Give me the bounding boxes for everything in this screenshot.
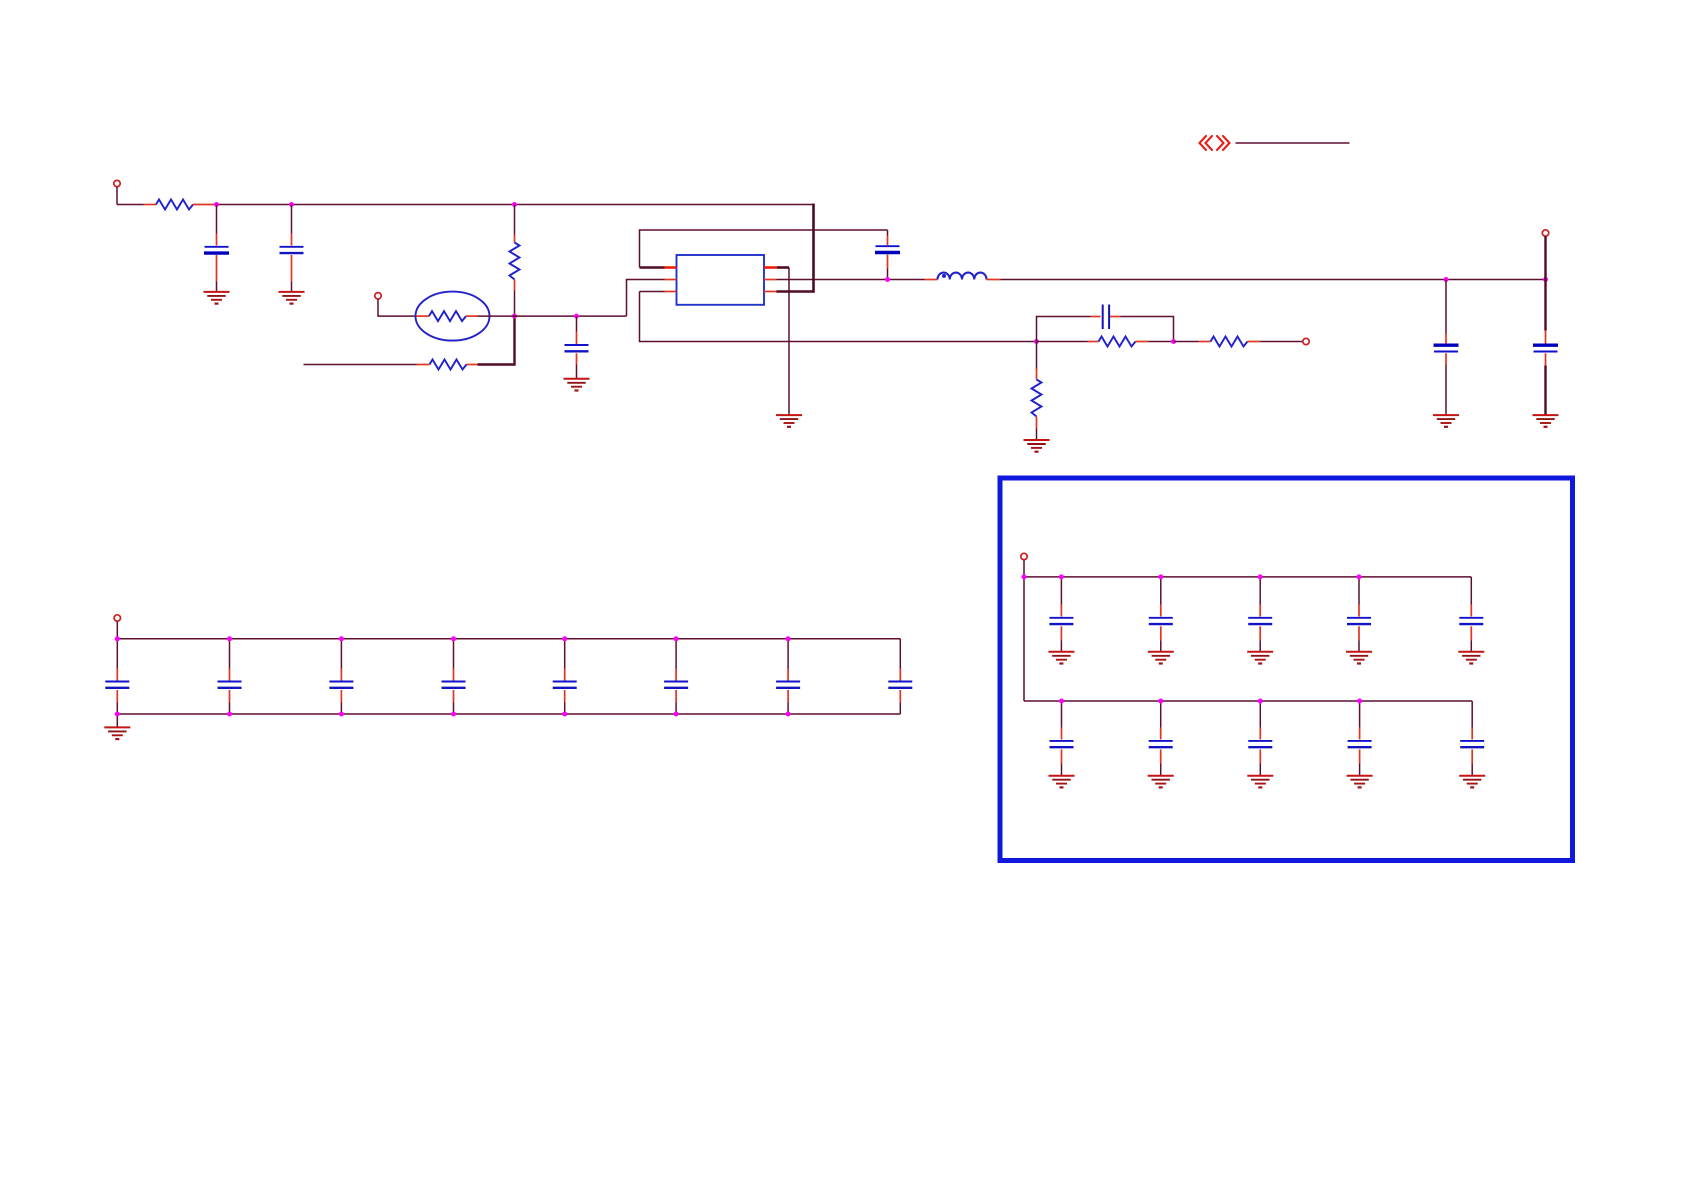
node box rail2 3: [1258, 699, 1263, 704]
wire CB3 lower: [340, 703, 342, 715]
wire CB7 lower: [787, 703, 789, 715]
node E: [574, 314, 579, 319]
wire CB2 lower: [229, 703, 231, 715]
node bank top 6: [674, 636, 679, 641]
wire CD2 upper: [1160, 577, 1162, 605]
node bank bottom 4: [451, 712, 456, 717]
lead R1 left: [144, 204, 157, 206]
lead CB6 bottom: [675, 690, 677, 703]
capacitor C2: [280, 247, 304, 253]
wire C2 upper: [291, 205, 293, 234]
ground C3: [564, 379, 590, 391]
lead CB1 top: [116, 669, 118, 681]
lead CB8 bottom: [899, 690, 901, 703]
capacitor CB1: [105, 682, 129, 688]
wire bank top rail: [117, 638, 900, 640]
resistor R7: [1032, 380, 1042, 417]
wire C1 upper: [216, 205, 218, 234]
wire CD2 lower: [1160, 641, 1162, 652]
wire C2 to ground: [291, 282, 293, 292]
wire box rail1: [1024, 576, 1471, 578]
wire CE5 lower: [1471, 764, 1473, 776]
ground C6: [1533, 415, 1559, 427]
wire C4 upper: [887, 230, 889, 236]
capacitor C7: [1103, 305, 1109, 330]
lead C6 bottom: [1545, 353, 1547, 365]
ground C1: [204, 292, 230, 304]
ground CE2: [1148, 776, 1174, 788]
wire CB8 lower: [899, 703, 901, 715]
capacitor CB6: [664, 682, 688, 688]
lead CB2 bottom: [229, 690, 231, 703]
lead CB8 top: [899, 669, 901, 681]
node box rail1 2: [1158, 574, 1163, 579]
wire CE1 upper: [1061, 701, 1063, 728]
node box rail2 2: [1158, 699, 1163, 704]
wire R3 open end: [304, 364, 417, 366]
node box rail1 4: [1357, 574, 1362, 579]
wire CD1 lower: [1060, 641, 1062, 652]
wire C5 upper: [1445, 280, 1447, 334]
ground U1: [776, 415, 802, 427]
wire CB5 lower: [564, 703, 566, 715]
wire pin1 right thick: [777, 266, 789, 269]
wire node D down to corner: [478, 316, 515, 364]
lead C3 bottom: [576, 353, 578, 364]
wire CE3 upper: [1259, 701, 1261, 728]
lead CB4 top: [453, 669, 455, 681]
wire P6 down: [1023, 560, 1025, 577]
net label guillemets: [1200, 136, 1230, 150]
wire bank ground stub: [116, 714, 118, 727]
capacitor CE2: [1149, 741, 1173, 747]
node box rail2 4: [1357, 699, 1362, 704]
lead R4 left: [416, 315, 429, 317]
node bank top 7: [786, 636, 791, 641]
node bank top 2: [227, 636, 232, 641]
lead C7 right: [1110, 316, 1121, 318]
resistor R6: [1211, 337, 1248, 347]
lead CE1 bottom: [1061, 749, 1063, 763]
wire C3 upper: [576, 316, 578, 331]
wire C1 to ground: [216, 282, 218, 292]
wire P3 down: [1544, 236, 1546, 279]
lead C1 bottom: [216, 255, 218, 282]
lead CD3 bottom: [1259, 626, 1261, 640]
lead CB5 bottom: [564, 690, 566, 703]
wire CE4 lower: [1359, 764, 1361, 776]
wire C6 upper thick: [1544, 280, 1546, 331]
node top rail A: [214, 202, 219, 207]
wire R2 to node D: [514, 291, 516, 317]
wire CE3 lower: [1259, 764, 1261, 776]
port P1: [114, 180, 120, 186]
wire CB5 upper: [564, 639, 566, 669]
lead U1 pin1 right: [764, 266, 777, 269]
node box rail2 1: [1059, 699, 1064, 704]
lead U1 pin2 right: [764, 279, 777, 281]
lead R3 right: [467, 364, 478, 366]
lead CB2 top: [229, 669, 231, 681]
resistor R1: [156, 200, 193, 210]
resistor R5: [1099, 337, 1136, 347]
capacitor C6: [1533, 345, 1558, 351]
capacitor CD3: [1248, 618, 1272, 624]
lead U1 pin3 left: [665, 291, 677, 293]
wire net label: [1236, 142, 1350, 144]
node bank top 3: [339, 636, 344, 641]
node bank top 5: [562, 636, 567, 641]
node bank bottom 1: [115, 712, 120, 717]
lead R3 left: [417, 364, 430, 366]
resistor R2: [510, 243, 520, 280]
capacitor CE3: [1248, 741, 1272, 747]
wire CB3 upper: [340, 639, 342, 669]
lead CE3 bottom: [1259, 749, 1261, 763]
capacitor C1: [204, 247, 229, 253]
node bank bottom 6: [674, 712, 679, 717]
lead CB1 bottom: [116, 690, 118, 703]
wire R2 upper: [514, 205, 516, 235]
lead CD4 bottom: [1358, 626, 1360, 640]
lead U1 pin1 left: [665, 266, 677, 269]
lead L1 right: [987, 279, 1001, 281]
lead CE4 top: [1359, 728, 1361, 740]
lead CE1 top: [1061, 728, 1063, 740]
node P6 junction: [1022, 574, 1027, 579]
lead R2 bottom: [514, 280, 516, 291]
ground CD2: [1148, 652, 1174, 664]
wire pin3 down long: [640, 292, 1037, 342]
node H: [1543, 277, 1548, 282]
lead R6 right: [1248, 341, 1261, 343]
node bank bottom 2: [227, 712, 232, 717]
lead R1 right: [193, 204, 217, 206]
lead CB3 bottom: [340, 690, 342, 703]
wire K to R6: [1174, 341, 1199, 343]
lead CB3 top: [340, 669, 342, 681]
lead R5 left: [1088, 341, 1099, 343]
wire pin1 left thick: [640, 266, 665, 269]
lead CE2 top: [1160, 728, 1162, 740]
wire CE1 lower: [1061, 764, 1063, 776]
lead CD2 bottom: [1160, 626, 1162, 640]
lead CD3 top: [1259, 605, 1261, 617]
ground CD3: [1247, 652, 1273, 664]
lead C3 top: [576, 332, 578, 345]
node J feedback: [1034, 339, 1039, 344]
wire CB4 upper: [453, 639, 455, 669]
ground CE1: [1049, 776, 1075, 788]
ground C5: [1433, 415, 1459, 427]
wire C4 to node F: [887, 269, 889, 280]
lead R4 right: [466, 315, 478, 317]
capacitor CE5: [1460, 741, 1484, 747]
capacitor CB5: [553, 682, 577, 688]
wire pin3 left: [640, 291, 665, 293]
lead CD4 top: [1358, 605, 1360, 617]
wire R4 to node E: [478, 315, 627, 317]
ground CD1: [1048, 652, 1074, 664]
ground CD4: [1346, 652, 1372, 664]
lead CB4 bottom: [453, 690, 455, 703]
lead CE4 bottom: [1359, 749, 1361, 763]
lead CB7 bottom: [787, 690, 789, 703]
wire CD5 upper: [1470, 577, 1472, 605]
wire bank bottom rail: [117, 713, 900, 715]
port P5: [114, 615, 120, 621]
wire L1 to node G: [1001, 279, 1546, 281]
thermistor ellipse E1: [416, 292, 490, 341]
wire CB6 upper: [675, 639, 677, 669]
lead CB6 top: [675, 669, 677, 681]
wire CD5 lower: [1470, 641, 1472, 652]
lead C4 top: [887, 236, 889, 246]
lead R7 top: [1036, 369, 1038, 380]
wire feedback up branch: [1037, 317, 1091, 342]
wire CB4 lower: [453, 703, 455, 715]
wire R5 to node K: [1149, 341, 1174, 343]
capacitor CD5: [1459, 618, 1483, 624]
lead C2 top: [291, 234, 293, 246]
lead C7 left: [1091, 316, 1101, 318]
wire top rail: [217, 204, 814, 206]
lead R6 left: [1199, 341, 1211, 343]
lead CB7 top: [787, 669, 789, 681]
wire box rail2: [1024, 700, 1472, 702]
wire J down: [1036, 342, 1038, 369]
ground C2: [279, 292, 305, 304]
wire CB2 upper: [229, 639, 231, 669]
lead CD1 bottom: [1060, 626, 1062, 640]
lead C1 top: [216, 234, 218, 246]
lead R2 top: [514, 235, 516, 243]
capacitor CD4: [1347, 618, 1371, 624]
port P4: [1303, 338, 1309, 344]
lead CB5 top: [564, 669, 566, 681]
lead U1 pin2 left: [665, 279, 677, 281]
wire feedback upper right: [1121, 317, 1174, 342]
wire CB1 lower: [116, 703, 118, 715]
lead C6 top: [1545, 331, 1547, 345]
lead CD5 top: [1470, 605, 1472, 617]
capacitor CB7: [776, 682, 800, 688]
wire P5 down: [116, 621, 118, 639]
wire pin2 right: [777, 279, 925, 281]
lead CE3 top: [1259, 728, 1261, 740]
node bank bottom 7: [786, 712, 791, 717]
port P3: [1542, 230, 1548, 236]
wire pin1 up: [640, 230, 888, 268]
lead R7 bottom: [1036, 417, 1038, 429]
capacitor C4: [875, 246, 900, 252]
lead CE5 bottom: [1471, 749, 1473, 763]
wire CD4 lower: [1358, 641, 1360, 652]
wire gnd vertical: [788, 268, 790, 415]
ground CE3: [1247, 776, 1273, 788]
node top rail B: [289, 202, 294, 207]
lead CD2 top: [1160, 605, 1162, 617]
wire pin3 right to riser: [777, 290, 814, 292]
lead C5 top: [1445, 334, 1447, 345]
wire CE4 upper: [1359, 701, 1361, 728]
wire C3 to ground: [576, 365, 578, 379]
wire P1 to R1: [117, 204, 144, 206]
lead CE2 bottom: [1160, 749, 1162, 763]
node bank top 1: [115, 636, 120, 641]
capacitor CE4: [1348, 741, 1372, 747]
capacitor CB4: [442, 682, 466, 688]
lead R5 right: [1136, 341, 1149, 343]
wire CD3 upper: [1259, 577, 1261, 605]
wire box left vertical: [1023, 577, 1025, 701]
capacitor CB8: [888, 682, 912, 688]
lead L1 left: [925, 279, 938, 281]
capacitor C3: [565, 345, 589, 351]
node top rail C: [512, 202, 517, 207]
ground bank: [104, 727, 130, 739]
wire CD4 upper: [1358, 577, 1360, 605]
node D: [512, 314, 517, 319]
lead C4 bottom: [887, 255, 889, 269]
lead CE5 top: [1471, 728, 1473, 740]
wire CE5 upper: [1471, 701, 1473, 728]
lead U1 pin3 right: [764, 291, 777, 293]
wire J to R5: [1037, 341, 1088, 343]
inductor L1: [938, 273, 987, 280]
wire C6 to ground thick: [1544, 366, 1546, 415]
node K: [1171, 339, 1176, 344]
IC U1: [677, 255, 765, 305]
capacitor CE1: [1050, 741, 1074, 747]
wire CB6 lower: [675, 703, 677, 715]
wire riser thick: [812, 204, 815, 293]
lead C2 bottom: [291, 255, 293, 282]
wire CE2 lower: [1160, 764, 1162, 776]
wire node E up to pin2: [627, 280, 665, 317]
ground R7: [1024, 440, 1050, 452]
lead C5 bottom: [1445, 353, 1447, 364]
node box rail1 1: [1059, 574, 1064, 579]
node F: [885, 277, 890, 282]
wire R7 to ground: [1036, 429, 1038, 440]
resistor R3: [430, 360, 467, 370]
port P2: [375, 293, 381, 299]
wire CD1 upper: [1060, 577, 1062, 605]
node bank bottom 3: [339, 712, 344, 717]
blue box frame: [1000, 478, 1573, 861]
node box rail1 3: [1258, 574, 1263, 579]
wire CE2 upper: [1160, 701, 1162, 728]
ground CD5: [1458, 652, 1484, 664]
resistor R4: [429, 311, 466, 321]
wire C5 to ground: [1445, 365, 1447, 415]
lead CD1 top: [1060, 605, 1062, 617]
wire CB1 upper: [116, 639, 118, 669]
wire P2 down: [378, 299, 416, 316]
lead CD5 bottom: [1470, 626, 1472, 640]
ground CE5: [1459, 776, 1485, 788]
ground CE4: [1347, 776, 1373, 788]
wire P1 down: [116, 187, 118, 205]
capacitor CD2: [1149, 618, 1173, 624]
wire CB8 upper: [899, 639, 901, 669]
capacitor CB3: [329, 682, 353, 688]
wire CD3 lower: [1259, 641, 1261, 652]
capacitor C5: [1434, 345, 1459, 351]
wire R6 to port P4: [1261, 341, 1303, 343]
wire CB7 upper: [787, 639, 789, 669]
node bank bottom 5: [562, 712, 567, 717]
capacitor CB2: [218, 682, 242, 688]
capacitor CD1: [1049, 618, 1073, 624]
node G: [1444, 277, 1449, 282]
node bank top 4: [451, 636, 456, 641]
port P6: [1021, 553, 1027, 559]
